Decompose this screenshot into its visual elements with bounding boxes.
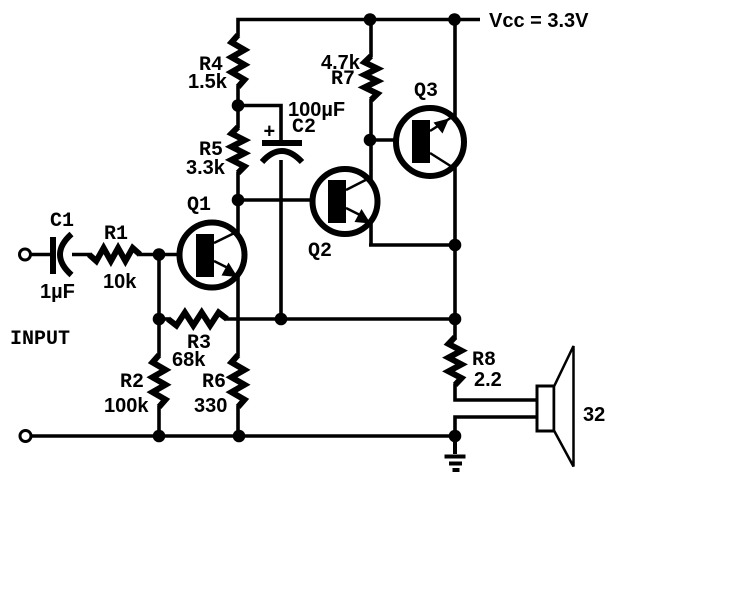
wire C1 to R1	[72, 253, 90, 257]
node B R5-Q1-Q2	[232, 194, 245, 207]
svg-text:+: +	[264, 121, 276, 143]
svg-text:1.5k: 1.5k	[188, 71, 228, 93]
wire bottom ground rail	[31, 434, 455, 438]
node R6 bottom	[233, 430, 246, 443]
wire base node down through R2	[157, 255, 161, 357]
node R3 left	[153, 313, 166, 326]
transistor Q2	[313, 169, 378, 234]
transistor Q1	[180, 223, 245, 288]
node Vcc-right-rail	[448, 13, 461, 26]
capacitor C2	[262, 140, 302, 162]
wire base node to R3	[159, 317, 169, 321]
svg-text:R7: R7	[331, 68, 355, 91]
node R2 bottom	[153, 430, 166, 443]
node Q3 base	[364, 134, 377, 147]
svg-text:1µF: 1µF	[40, 281, 75, 303]
resistor R5 3.3k	[232, 127, 245, 173]
wire R5 to node B to Q1 collector and emitter run	[236, 172, 240, 356]
wire C2 bottom lead	[279, 160, 283, 319]
resistor R4 1.5k	[232, 35, 245, 87]
svg-text:330: 330	[194, 395, 227, 417]
input terminal top	[20, 249, 31, 260]
node Vcc-R7	[364, 13, 377, 26]
svg-text:Q3: Q3	[414, 80, 438, 103]
wire R6 bottom to ground rail	[236, 406, 240, 438]
resistor R1 10k	[89, 248, 140, 261]
svg-text:R6: R6	[202, 371, 226, 394]
node C2-R3	[275, 313, 288, 326]
wire R7 to Q3 base node down to Q2 emitter run	[369, 99, 373, 245]
wire top Vcc rail	[238, 20, 480, 37]
input terminal bottom	[20, 431, 31, 442]
wire node A to C2 top	[236, 106, 281, 142]
resistor R7 4.7k	[365, 56, 378, 100]
wire R1 to Q1 base node	[139, 253, 161, 257]
svg-text:100k: 100k	[104, 395, 149, 417]
resistor R6 330	[232, 355, 245, 407]
svg-text:C2: C2	[292, 116, 316, 139]
wire node A to R5 and node B	[236, 106, 240, 128]
wire speaker return	[455, 417, 538, 436]
wire Q2 emitter to right rail	[369, 243, 455, 247]
wire input to C1	[30, 253, 51, 257]
wire R8 bottom to speaker	[455, 384, 538, 400]
wire feedback R3 run	[226, 317, 455, 321]
svg-text:2.2: 2.2	[474, 369, 502, 391]
svg-text:3.3k: 3.3k	[186, 157, 226, 179]
svg-text:Q2: Q2	[308, 240, 332, 263]
resistor R8 2.2	[449, 337, 462, 385]
svg-text:Q1: Q1	[187, 194, 211, 217]
resistor R3 68k	[168, 313, 227, 326]
svg-text:R1: R1	[104, 223, 128, 246]
wire Vcc rail to R7	[369, 18, 373, 58]
capacitor C1	[50, 234, 72, 275]
ground	[445, 436, 466, 470]
svg-text:C1: C1	[50, 210, 74, 233]
speaker	[537, 346, 574, 467]
svg-text:INPUT: INPUT	[10, 328, 70, 351]
wire node B to Q2 base	[238, 198, 332, 202]
node R8 top	[449, 313, 462, 326]
node A R4-R5-C2	[232, 99, 245, 112]
wire right rail Vcc down through Q3 to R8	[453, 18, 457, 340]
resistor R2 100k	[153, 355, 166, 407]
node ground	[449, 430, 462, 443]
svg-text:10k: 10k	[103, 271, 137, 293]
wire Q1 base	[159, 253, 200, 257]
svg-text:32: 32	[583, 404, 605, 426]
wire R4 to node A	[236, 86, 240, 106]
svg-text:68k: 68k	[172, 349, 206, 371]
node Q1 base	[153, 248, 166, 261]
transistor Q3	[396, 108, 464, 176]
wire R2 bottom	[157, 406, 161, 438]
svg-text:Vcc = 3.3V: Vcc = 3.3V	[489, 10, 589, 32]
svg-text:R2: R2	[120, 371, 144, 394]
node Q2 emitter rail	[449, 239, 462, 252]
wire Q3 base	[369, 138, 416, 142]
